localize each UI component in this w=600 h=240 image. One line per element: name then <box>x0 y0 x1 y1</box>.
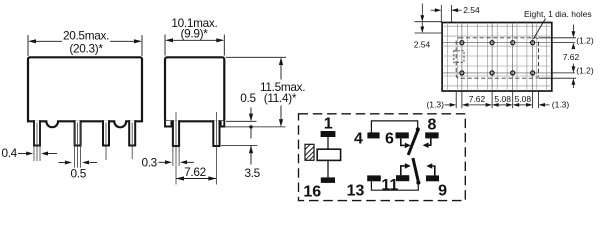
dimension 0.5 standoff + 3.5 pin length <box>250 108 252 165</box>
auxiliary lines right of side view <box>221 57 286 145</box>
terminal 8 bar <box>425 132 438 138</box>
svg-text:16: 16 <box>303 184 321 201</box>
svg-text:7.62: 7.62 <box>469 94 486 104</box>
coil wire top <box>327 137 329 150</box>
svg-text:9: 9 <box>438 182 447 199</box>
contact arrow 9 <box>432 166 434 175</box>
svg-text:0.5: 0.5 <box>240 91 256 105</box>
svg-text:8: 8 <box>427 117 436 134</box>
dimension 11.5max <box>280 64 282 120</box>
pin 3 (front) <box>103 120 109 160</box>
svg-text:(9.9)*: (9.9)* <box>180 26 208 40</box>
wire 4 to pivot <box>371 121 417 133</box>
grid <box>442 23 552 92</box>
svg-text:13: 13 <box>347 182 365 199</box>
right extension lines <box>539 38 577 78</box>
svg-text:4: 4 <box>354 131 363 148</box>
pivot dot top <box>416 127 420 131</box>
terminal 11 bar <box>396 175 409 181</box>
pivot dot bottom <box>416 181 420 185</box>
pin right (side) <box>213 112 219 185</box>
coil wire bottom <box>327 160 329 177</box>
hatched mark <box>305 144 314 160</box>
bottom extension lines <box>456 91 538 108</box>
movable contact bottom <box>413 158 419 183</box>
dimension 0.5 <box>59 162 98 164</box>
svg-text:11: 11 <box>381 177 398 194</box>
svg-text:7.62: 7.62 <box>184 165 206 179</box>
pin 2 (front) <box>75 120 81 167</box>
svg-text:(1.3): (1.3) <box>552 100 570 110</box>
pin 1 (front) <box>34 120 40 161</box>
svg-text:(1.3): (1.3) <box>426 100 444 110</box>
svg-text:Eight, 1 dia. holes: Eight, 1 dia. holes <box>524 9 592 19</box>
svg-text:(1.2): (1.2) <box>576 36 594 46</box>
relay body (front view) <box>28 57 142 127</box>
terminal 13 bar <box>367 175 381 181</box>
dashed box <box>299 114 466 201</box>
svg-text:5.08: 5.08 <box>515 94 532 104</box>
pin left (side) <box>173 112 179 185</box>
top dim 2.54 <box>431 5 462 23</box>
dashed relay outline on pcb <box>456 38 538 78</box>
pcb board rect <box>442 23 552 92</box>
svg-text:6: 6 <box>385 131 394 148</box>
terminal 9 bar <box>426 175 439 181</box>
right standoff tab <box>221 121 225 127</box>
terminal 6 bar <box>396 132 409 138</box>
svg-text:0.3: 0.3 <box>141 155 157 169</box>
dashed coil mark box <box>454 51 464 63</box>
left dim 2.54 <box>415 4 443 34</box>
svg-text:(11.4)*: (11.4)* <box>264 91 297 105</box>
dimension 20.5max / (20.3)* <box>28 35 142 56</box>
wire 13 to pivot <box>371 181 418 190</box>
svg-text:0.5: 0.5 <box>71 167 87 181</box>
svg-text:7.62: 7.62 <box>563 52 580 62</box>
contact arrow 8 <box>429 138 431 145</box>
svg-text:0.4: 0.4 <box>1 146 17 160</box>
pin 4 (front) <box>129 120 135 159</box>
terminal 16 bar <box>321 177 335 183</box>
svg-text:1: 1 <box>324 115 333 132</box>
contact arrow 6 <box>401 138 405 145</box>
relay body (side view) <box>165 57 224 121</box>
terminal 1 bar <box>321 131 336 137</box>
terminal 4 bar <box>367 132 379 138</box>
contact arrow 11 <box>401 166 405 175</box>
dimension 10.1max / (9.9)* <box>165 35 224 56</box>
svg-text:3.5: 3.5 <box>244 166 260 180</box>
left standoff tab <box>165 121 171 127</box>
right dims (1.2)/7.62/(1.2) <box>572 25 574 89</box>
movable contact top <box>408 129 418 155</box>
svg-text:2.54: 2.54 <box>463 5 480 15</box>
coil box <box>317 149 340 160</box>
svg-text:5.08: 5.08 <box>494 94 511 104</box>
svg-text:2.54: 2.54 <box>414 39 431 49</box>
svg-text:(1.2): (1.2) <box>576 66 594 76</box>
svg-text:(20.3)*: (20.3)* <box>69 41 103 55</box>
8 holes <box>460 41 535 75</box>
dimension 7.62 (side view) <box>176 178 216 180</box>
